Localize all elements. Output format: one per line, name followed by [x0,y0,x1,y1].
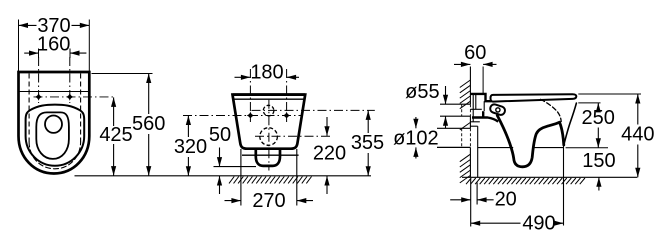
svg-text:320: 320 [174,136,207,158]
svg-text:490: 490 [522,213,555,235]
svg-text:250: 250 [582,107,615,129]
svg-text:270: 270 [252,190,285,212]
svg-text:60: 60 [464,42,486,64]
svg-text:ø55: ø55 [405,81,439,103]
svg-text:50: 50 [209,124,231,146]
svg-text:440: 440 [621,123,654,145]
svg-text:560: 560 [132,113,165,135]
svg-text:425: 425 [99,124,132,146]
svg-text:ø102: ø102 [393,128,439,150]
svg-text:160: 160 [37,34,70,56]
svg-text:150: 150 [582,150,615,172]
svg-text:180: 180 [250,61,283,83]
svg-text:20: 20 [495,189,517,211]
svg-text:355: 355 [351,132,384,154]
svg-text:220: 220 [313,143,346,165]
